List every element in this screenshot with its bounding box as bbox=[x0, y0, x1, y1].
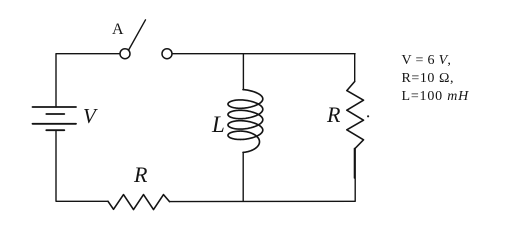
switch A: left terminal circle bbox=[120, 49, 130, 59]
wire: left branch bottom + bottom wire to resistor bbox=[56, 130, 108, 201]
resistor R bottom (zigzag) bbox=[108, 195, 170, 210]
wire: left branch top + top wire to switch bbox=[56, 54, 120, 107]
wire: bottom to right branch bbox=[170, 200, 356, 202]
resistor R right: bottom lead bbox=[354, 149, 356, 202]
label R (bottom resistor) bbox=[134, 164, 147, 186]
resistor R right: top lead bbox=[354, 54, 356, 82]
battery V: plates bbox=[33, 107, 77, 130]
label L (inductor) bbox=[212, 113, 225, 136]
inductor L: top lead bbox=[242, 54, 244, 89]
switch A: lever arm bbox=[129, 20, 146, 50]
wire: top from switch to right branch bbox=[172, 53, 355, 55]
stray dot mark bbox=[367, 115, 369, 117]
label V (battery) bbox=[83, 106, 96, 127]
label R (right resistor) bbox=[327, 104, 340, 126]
resistor R right (zigzag) bbox=[347, 82, 364, 149]
inductor L: coil bbox=[228, 90, 263, 153]
inductor L: bottom lead bbox=[242, 152, 244, 201]
resistor R right: doubled lead segment bbox=[353, 149, 355, 179]
label A (switch) bbox=[112, 22, 124, 38]
parameter text: V = 6 V, R=10 ohm, L=100 mH bbox=[402, 52, 470, 107]
switch A: right terminal circle bbox=[162, 49, 172, 59]
